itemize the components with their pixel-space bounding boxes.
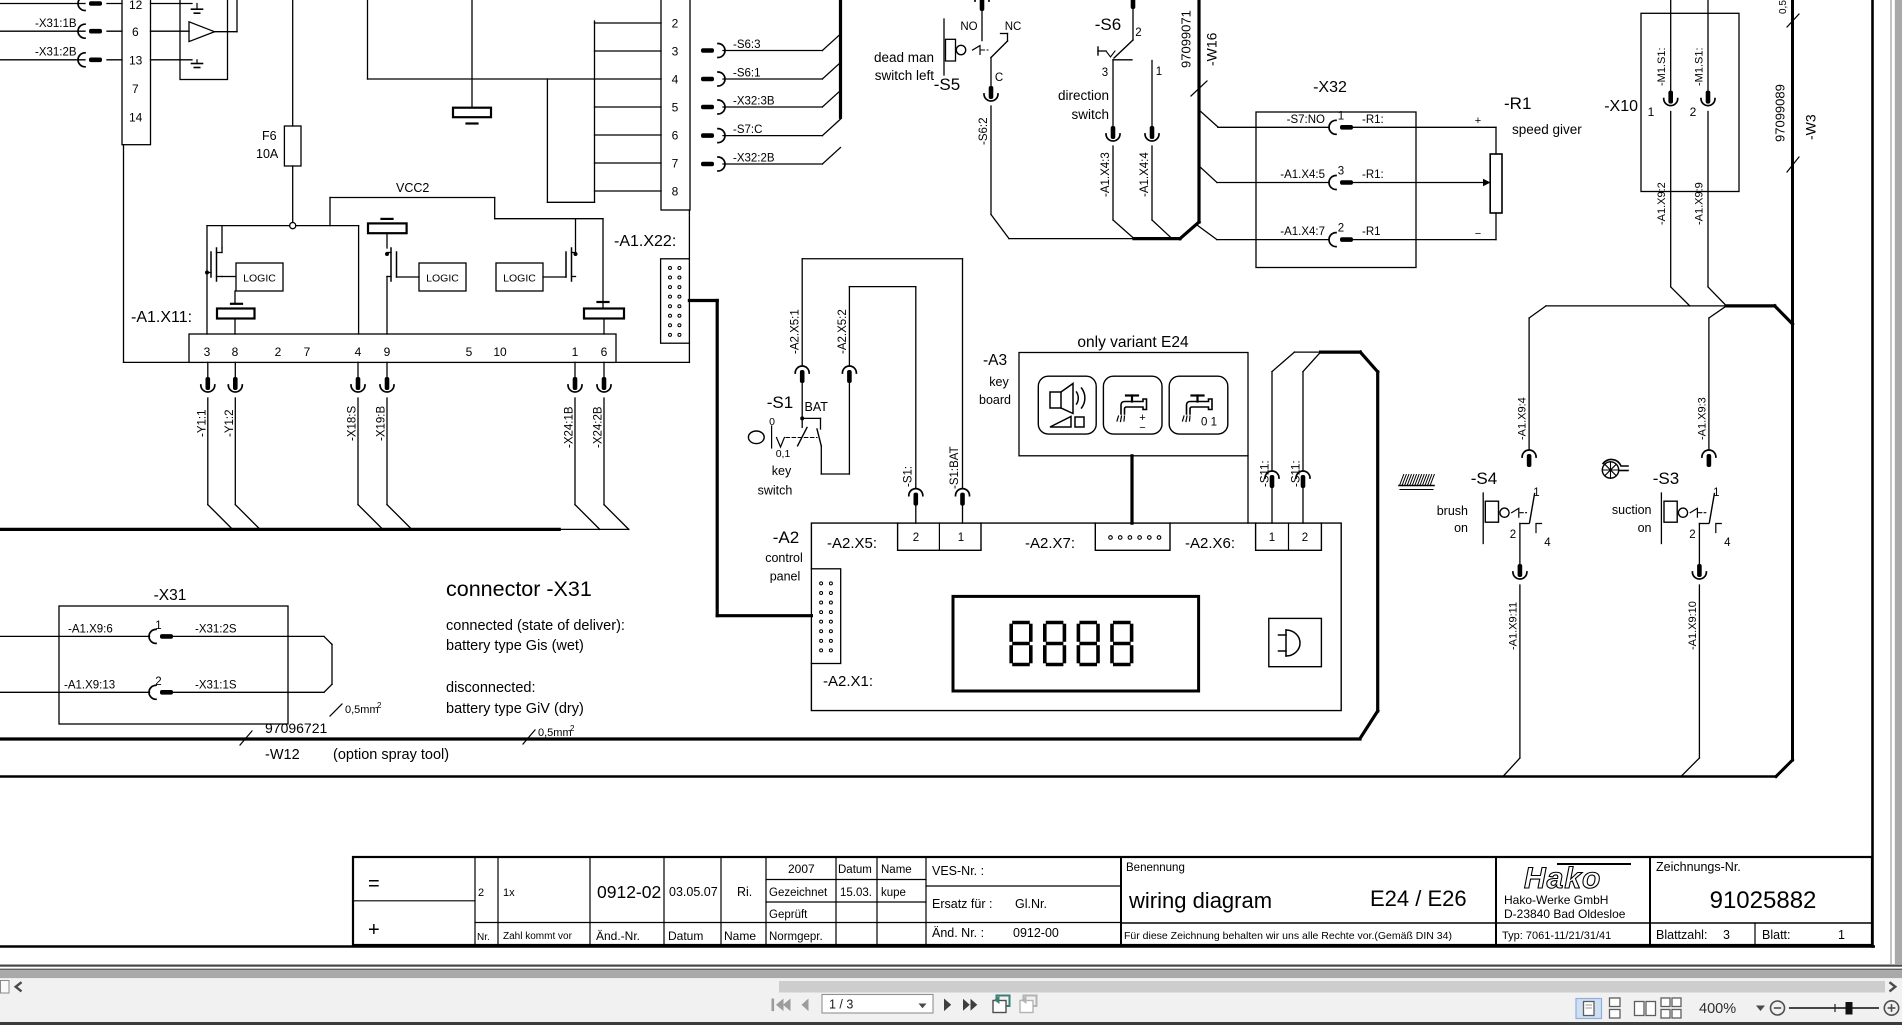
svg-text:Name: Name <box>724 929 756 943</box>
svg-text:wiring diagram: wiring diagram <box>1128 888 1272 913</box>
wire S11-1 into X6 <box>1271 372 1273 471</box>
wire -X32:2B <box>723 163 822 165</box>
wire R1 minus <box>1416 239 1496 241</box>
svg-text:2007: 2007 <box>788 862 815 876</box>
svg-text:0,1: 0,1 <box>776 448 791 460</box>
svg-text:2: 2 <box>1135 27 1141 39</box>
switch S5 actuator <box>943 19 945 75</box>
svg-text:1: 1 <box>1838 928 1845 942</box>
title block Hako col <box>1495 857 1497 945</box>
cable marker slash W16 <box>1191 81 1207 96</box>
svg-text:4: 4 <box>672 73 679 87</box>
wire X31 bracket <box>331 644 333 684</box>
connector A2.X6 <box>1256 523 1322 550</box>
svg-text:E24 / E26: E24 / E26 <box>1370 886 1467 911</box>
wire into X31 row1 <box>0 635 150 637</box>
outer scrollbar right arrow <box>1890 982 1896 991</box>
pin X32 3 <box>1329 176 1353 190</box>
svg-text:-A1.X4:3: -A1.X4:3 <box>1100 152 1112 197</box>
op-amp U1 triangle <box>189 22 215 42</box>
logic block U3 LOGIC <box>419 263 466 291</box>
svg-text:-A1.X4:5: -A1.X4:5 <box>1280 169 1325 181</box>
wire X32 row1 from cable <box>1199 110 1218 127</box>
pin X32 2 <box>1329 233 1353 247</box>
svg-text:dead man: dead man <box>874 50 934 65</box>
logic block U2 LOGIC <box>236 263 283 291</box>
connector strip A1.X4 pins 2-8 <box>661 0 690 210</box>
svg-text:key: key <box>989 375 1009 389</box>
switch S1 blade 1 <box>798 427 807 445</box>
svg-text:-X31:2B: -X31:2B <box>35 47 77 59</box>
svg-text:-S6:2: -S6:2 <box>978 118 990 146</box>
svg-text:7: 7 <box>304 345 311 359</box>
pin into A2.X5 pin1 <box>956 489 970 506</box>
svg-text:=: = <box>368 873 380 895</box>
svg-text:−: − <box>1475 228 1481 240</box>
svg-text:Ersatz für :: Ersatz für : <box>932 897 992 911</box>
display digit 2 <box>1048 621 1062 625</box>
nav next button <box>944 999 951 1012</box>
wire -X24:2B diagonal to bus <box>604 505 629 530</box>
svg-text:connector -X31: connector -X31 <box>446 577 592 601</box>
svg-text:97099071: 97099071 <box>1179 10 1194 68</box>
pin -S7:C on A1.X4 <box>701 129 725 143</box>
brush icon <box>1400 475 1435 486</box>
keyboard A3 box <box>1019 353 1248 456</box>
wire -X24:1B below A1.X11 <box>574 362 576 377</box>
svg-text:-S11:: -S11: <box>1260 460 1272 487</box>
nav last button <box>963 999 977 1011</box>
pin X31 row2 <box>149 685 173 699</box>
switch S4 actuator <box>1482 493 1484 544</box>
wire inner loop top <box>849 286 915 288</box>
svg-text:0912-00: 0912-00 <box>1013 926 1059 940</box>
wire logic1 to cap <box>234 291 236 304</box>
wire X32 row2 from cable <box>1199 166 1217 183</box>
svg-text:speed giver: speed giver <box>1512 122 1582 137</box>
svg-text:VES-Nr. :: VES-Nr. : <box>932 864 984 878</box>
wire -X19:B below A1.X11 <box>386 362 388 377</box>
svg-text:8: 8 <box>232 345 239 359</box>
switch S3 actuator <box>1660 493 1662 544</box>
svg-text:direction: direction <box>1058 88 1109 103</box>
connector A2.X5 <box>898 523 981 550</box>
svg-text:-X10: -X10 <box>1604 98 1638 115</box>
svg-text:Änd. Nr. :: Änd. Nr. : <box>932 926 984 940</box>
pin X31 row1 <box>149 629 173 643</box>
svg-text:03.05.07: 03.05.07 <box>669 885 718 899</box>
ground bar top middle <box>471 0 473 108</box>
svg-text:3: 3 <box>1102 67 1108 79</box>
svg-text:0,5: 0,5 <box>1778 0 1789 14</box>
svg-text:Typ: 7061-11/21/31/41: Typ: 7061-11/21/31/41 <box>1502 930 1611 942</box>
title block Zeichnungs col <box>1649 857 1651 945</box>
connector A2.X1 dotted <box>811 569 840 664</box>
svg-text:disconnected:: disconnected: <box>446 680 535 696</box>
wire A3 corner to A2 <box>1247 456 1249 523</box>
zoom slider <box>1789 1007 1879 1009</box>
switch S6 blade <box>1114 40 1133 58</box>
svg-text:-A1.X4:4: -A1.X4:4 <box>1139 152 1151 197</box>
title block Benennung col <box>1120 857 1122 945</box>
svg-text:switch: switch <box>1071 107 1109 122</box>
svg-text:-X32:2B: -X32:2B <box>733 153 775 165</box>
svg-text:-S1: -S1 <box>767 393 793 412</box>
junction dot S1 BAT <box>800 416 804 420</box>
wire Q4 drain to VCC2 <box>575 219 577 253</box>
svg-text:-A1.X9:6: -A1.X9:6 <box>68 624 113 636</box>
svg-text:-R1: -R1 <box>1504 94 1531 113</box>
svg-text:board: board <box>979 393 1011 407</box>
wire X10-1 diagonal <box>1671 287 1690 306</box>
wire -A1.X4:3 <box>1112 60 1114 126</box>
pin top of S5 circuit <box>975 0 989 11</box>
capacitor bar above transistor Q3 <box>382 218 393 220</box>
svg-text:2: 2 <box>155 676 161 688</box>
wire S11 horizontal thin <box>1295 351 1321 353</box>
svg-text:-S1:BAT: -S1:BAT <box>949 446 961 489</box>
svg-text:-A2.X5:: -A2.X5: <box>827 535 877 552</box>
lamp symbol box <box>1269 618 1322 666</box>
svg-text:2: 2 <box>377 701 382 710</box>
wire R1 plus <box>1416 126 1496 128</box>
wire -A1.X9:4 <box>1528 318 1530 450</box>
svg-text:-A2.X6:: -A2.X6: <box>1185 535 1235 552</box>
svg-text:-A2: -A2 <box>773 528 799 547</box>
pin X32 1 <box>1329 120 1353 134</box>
svg-text:Änd.-Nr.: Änd.-Nr. <box>596 929 640 943</box>
svg-text:-Y1:2: -Y1:2 <box>224 410 236 438</box>
svg-text:-A1.X9:9: -A1.X9:9 <box>1694 182 1706 225</box>
svg-text:1x: 1x <box>503 887 515 899</box>
wire -X31:2B row pin13 <box>0 59 85 61</box>
lamp symbol <box>1285 630 1287 656</box>
A1 block right edge <box>688 210 690 259</box>
wire -Y1:1 below A1.X11 <box>207 362 209 377</box>
layout two pages continuous icon <box>1661 998 1681 1018</box>
layout continuous icon <box>1610 998 1621 1018</box>
wire bundle left of A1.X4 <box>594 21 596 202</box>
svg-text:key: key <box>772 464 792 478</box>
wire -A2.X5:1 upper <box>801 259 803 366</box>
svg-text:2: 2 <box>913 532 919 544</box>
svg-text:4: 4 <box>1544 537 1551 549</box>
svg-text:-M1.S1:: -M1.S1: <box>1656 47 1668 86</box>
svg-text:−: − <box>1139 422 1145 434</box>
svg-text:4: 4 <box>355 345 362 359</box>
svg-text:C: C <box>995 72 1003 84</box>
wire op-amp output <box>215 31 238 33</box>
ground lower in op-amp box <box>196 60 198 64</box>
svg-text:1 / 3: 1 / 3 <box>829 997 853 1011</box>
logic cell 1 outline <box>207 225 290 227</box>
svg-text:battery type Gis (wet): battery type Gis (wet) <box>446 638 584 654</box>
svg-text:-X31:2S: -X31:2S <box>195 624 237 636</box>
svg-text:brush: brush <box>1437 504 1468 518</box>
svg-text:-S7:NO: -S7:NO <box>1287 114 1325 126</box>
svg-text:-S6:3: -S6:3 <box>733 39 761 51</box>
wire -X19:B diagonal to bus <box>387 505 412 530</box>
tap icon 1 <box>1121 399 1147 414</box>
op-amp U1 box <box>180 0 228 80</box>
wire -S6:3 <box>723 50 822 52</box>
svg-text:-S6:1: -S6:1 <box>733 68 761 80</box>
wire -S6:2 from S5 <box>990 58 992 87</box>
svg-text:-A1.X9:3: -A1.X9:3 <box>1696 397 1708 440</box>
svg-text:switch: switch <box>758 484 793 498</box>
wire X31 row1 right <box>173 635 324 637</box>
cable bus 97096721 upper <box>0 528 559 531</box>
wire -X32:3B <box>723 106 822 108</box>
svg-text:1: 1 <box>572 345 579 359</box>
svg-text:Datum: Datum <box>838 864 872 876</box>
wire fuse top <box>292 0 294 126</box>
wire -Y1:2 below A1.X11 <box>234 362 236 377</box>
svg-text:-M1.S1:: -M1.S1: <box>1694 47 1706 86</box>
svg-text:on: on <box>1638 521 1652 535</box>
horn icon <box>1050 392 1061 408</box>
svg-text:F6: F6 <box>262 129 277 143</box>
cable W16 bottom bend <box>1180 222 1199 239</box>
svg-text:13: 13 <box>129 54 143 68</box>
svg-text:Zahl kommt vor: Zahl kommt vor <box>503 931 573 942</box>
svg-text:-S6: -S6 <box>1095 15 1121 34</box>
svg-text:6: 6 <box>132 25 139 39</box>
svg-text:3: 3 <box>672 45 679 59</box>
wire -X31:1B row pin12 <box>0 3 85 5</box>
svg-text:-X24:2B: -X24:2B <box>593 406 605 448</box>
wire Q3 source to pin9 <box>386 277 388 335</box>
pin S3 top <box>1702 450 1716 467</box>
cable marker slash W3 mid <box>1787 157 1799 172</box>
title block revision cols <box>497 857 499 945</box>
svg-text:2: 2 <box>275 345 282 359</box>
cable thick to W3 <box>1726 304 1774 307</box>
capacitor bar near pin 8 <box>231 303 242 305</box>
svg-text:400%: 400% <box>1699 1001 1736 1017</box>
svg-text:-A1.X9:10: -A1.X9:10 <box>1687 601 1699 650</box>
wire -A1.X9:11 <box>1519 524 1521 565</box>
svg-text:1: 1 <box>1648 105 1655 119</box>
switch S4 contacts <box>1520 523 1529 525</box>
nav prev button <box>802 999 809 1012</box>
connector A2.X7 <box>1095 523 1170 550</box>
wire A3 to A2.X7 thick <box>1130 456 1133 523</box>
svg-text:-S5: -S5 <box>934 75 960 94</box>
wire -X18:S below A1.X11 <box>357 362 359 377</box>
svg-text:0 1: 0 1 <box>1201 417 1217 429</box>
svg-text:-X24:1B: -X24:1B <box>564 406 576 448</box>
switch S3 contacts <box>1699 523 1709 525</box>
svg-text:2: 2 <box>1690 105 1697 119</box>
connector X31 box <box>59 606 288 724</box>
svg-text:Zeichnungs-Nr.: Zeichnungs-Nr. <box>1656 860 1741 874</box>
cable marker slash W3 top <box>1787 14 1799 27</box>
svg-text:9: 9 <box>384 345 391 359</box>
wire horizontal y306 <box>1546 305 1726 307</box>
pin into A2.X5 pin2 <box>909 489 923 506</box>
svg-text:-S3: -S3 <box>1653 469 1679 488</box>
nav first page button <box>772 999 791 1012</box>
pin S4 top <box>1522 450 1536 467</box>
toolbar background <box>0 978 1902 1022</box>
bottom dark bar <box>0 1022 1902 1025</box>
svg-text:1: 1 <box>1156 66 1162 78</box>
transistor Q1 <box>210 252 212 277</box>
svg-text:5: 5 <box>672 101 679 115</box>
outer scrollbar left arrow <box>16 982 22 991</box>
svg-text:D-23840 Bad Oldesloe: D-23840 Bad Oldesloe <box>1504 907 1626 921</box>
wire pin13 to ground <box>151 59 193 61</box>
transistor Q3 <box>396 252 398 277</box>
svg-text:7: 7 <box>672 157 679 171</box>
cable W? thick vertical x841 <box>839 0 842 117</box>
svg-text:-X31: -X31 <box>154 587 187 604</box>
svg-text:NC: NC <box>1005 21 1022 33</box>
wire cap to pin8 <box>234 319 236 335</box>
svg-text:-S4: -S4 <box>1471 469 1497 488</box>
wire cap to Q3 <box>386 233 388 248</box>
svg-text:BAT: BAT <box>805 400 829 414</box>
svg-text:battery type GiV (dry): battery type GiV (dry) <box>446 701 584 717</box>
wire -S6:1 <box>723 78 822 80</box>
wire -A1.X9:3 <box>1708 318 1710 450</box>
capacitor bar near pin 6 <box>598 301 609 303</box>
zoom in button <box>1884 1001 1898 1015</box>
svg-text:-A1.X9:11: -A1.X9:11 <box>1507 602 1519 650</box>
switch S5 NC contact <box>1001 33 1008 35</box>
svg-text:Gl.Nr.: Gl.Nr. <box>1015 897 1047 911</box>
wire A1.X22 to A2.X1 thick <box>689 299 717 302</box>
pin top of S6 <box>1131 0 1136 9</box>
svg-text:suction: suction <box>1612 503 1652 517</box>
wire L from top to pin4 row <box>367 0 369 79</box>
svg-text:-R1:: -R1: <box>1362 169 1384 181</box>
tap icon 2 <box>1187 399 1213 414</box>
pin -X32:2B on A1.X4 <box>701 157 725 171</box>
svg-text:(option spray tool): (option spray tool) <box>333 747 449 763</box>
svg-text:switch left: switch left <box>875 68 935 83</box>
svg-text:-X31:1B: -X31:1B <box>35 18 77 30</box>
cable -W12 thick <box>0 737 1360 740</box>
zoom out button <box>1771 1001 1785 1015</box>
zoom dropdown caret <box>1756 1006 1765 1012</box>
wire -X18:S diagonal to bus <box>358 505 383 530</box>
display digit 4 <box>1115 621 1129 625</box>
connector A1.X11 box <box>189 334 616 362</box>
svg-text:-W3: -W3 <box>1803 114 1819 140</box>
wire VCC2 net <box>330 197 495 199</box>
svg-text:1: 1 <box>155 620 161 632</box>
switch S6 fixed contact <box>1097 47 1099 55</box>
pin -S6:3 on A1.X4 <box>701 44 725 58</box>
svg-text:-A2.X5:2: -A2.X5:2 <box>837 309 849 354</box>
pdf horizontal scrollbar <box>0 970 1902 978</box>
svg-text:0,5mm: 0,5mm <box>345 704 379 716</box>
svg-text:Geprüft: Geprüft <box>769 909 808 921</box>
rotate icon disabled <box>1020 1001 1033 1013</box>
layout two pages icon <box>1635 1002 1656 1016</box>
svg-text:-S7:C: -S7:C <box>733 124 762 136</box>
ground upper in op-amp box <box>196 4 198 10</box>
svg-text:3: 3 <box>1723 928 1730 942</box>
wire S11-1 dome <box>1272 352 1295 372</box>
wire R1 wiper <box>1416 182 1483 184</box>
svg-text:-X32: -X32 <box>1313 79 1347 96</box>
svg-text:6: 6 <box>601 345 608 359</box>
svg-text:97096721: 97096721 <box>265 720 328 736</box>
svg-text:2: 2 <box>1689 529 1695 541</box>
svg-text:VCC2: VCC2 <box>396 181 429 195</box>
svg-text:Benennung: Benennung <box>1126 862 1185 874</box>
wire -A1.X9:10 <box>1698 524 1700 565</box>
display digit 1 <box>1014 621 1028 625</box>
connector A1.X22 <box>661 259 690 343</box>
svg-text:1: 1 <box>1269 532 1275 544</box>
display digit 3 <box>1081 621 1095 625</box>
svg-text:8: 8 <box>672 185 679 199</box>
wire X32 3 to R1 <box>1353 182 1416 184</box>
svg-text:Hako: Hako <box>1524 862 1601 895</box>
svg-text:-W12: -W12 <box>265 747 300 763</box>
switch S4 blade <box>1530 494 1535 523</box>
svg-text:1: 1 <box>1338 110 1344 122</box>
svg-text:connected (state of deliver):: connected (state of deliver): <box>446 618 625 634</box>
switch S1 blade 2 <box>817 429 821 446</box>
svg-text:-S11:: -S11: <box>1291 460 1303 487</box>
A1 block bottom edge <box>124 361 190 363</box>
pin A2.X5:1 <box>795 366 809 383</box>
svg-text:-R1: -R1 <box>1362 226 1381 238</box>
svg-text:-X18:S: -X18:S <box>347 406 359 441</box>
svg-text:-X32:3B: -X32:3B <box>733 96 775 108</box>
scrollbar top border <box>0 969 1902 971</box>
svg-text:-S1:: -S1: <box>902 466 914 487</box>
switch S5 blade <box>991 41 1008 58</box>
frame right border <box>1871 0 1874 947</box>
svg-text:-X19:B: -X19:B <box>376 406 388 441</box>
svg-text:-A1.X22:: -A1.X22: <box>614 233 676 250</box>
layout single page active <box>1576 999 1602 1019</box>
cable marker slash 97096721 <box>240 731 252 745</box>
wire loop top <box>802 258 962 260</box>
logic block U4 LOGIC <box>496 263 543 291</box>
title block col1 = + <box>353 900 475 902</box>
svg-text:7: 7 <box>132 82 139 96</box>
wire M1.S1 pin2 <box>1707 0 1709 91</box>
display A2 <box>953 596 1199 691</box>
rotate icon active <box>693 963 695 965</box>
frame bottom border <box>0 945 1874 948</box>
svg-text:10A: 10A <box>256 147 279 161</box>
wire X10-2 diagonal <box>1708 287 1726 306</box>
wire -Y1:1 diagonal to bus <box>208 505 233 530</box>
svg-text:-A2.X7:: -A2.X7: <box>1025 535 1075 552</box>
pin -S6:1 on A1.X4 <box>701 72 725 86</box>
wire X31 row2 right <box>173 691 324 693</box>
cable marker slash 0,5mm2 <box>523 730 535 744</box>
svg-text:3: 3 <box>1338 166 1344 178</box>
wire S1 out <box>820 446 822 474</box>
svg-text:LOGIC: LOGIC <box>243 273 276 285</box>
svg-text:+: + <box>1475 115 1481 127</box>
svg-text:Für diese Zeichnung behalten w: Für diese Zeichnung behalten wir uns all… <box>1124 930 1452 942</box>
transistor Q4 <box>565 252 567 277</box>
svg-text:+: + <box>368 919 380 941</box>
vertical scrollbar <box>1890 0 1892 964</box>
svg-text:97099089: 97099089 <box>1773 84 1788 142</box>
svg-text:-A1.X11:: -A1.X11: <box>131 309 192 326</box>
